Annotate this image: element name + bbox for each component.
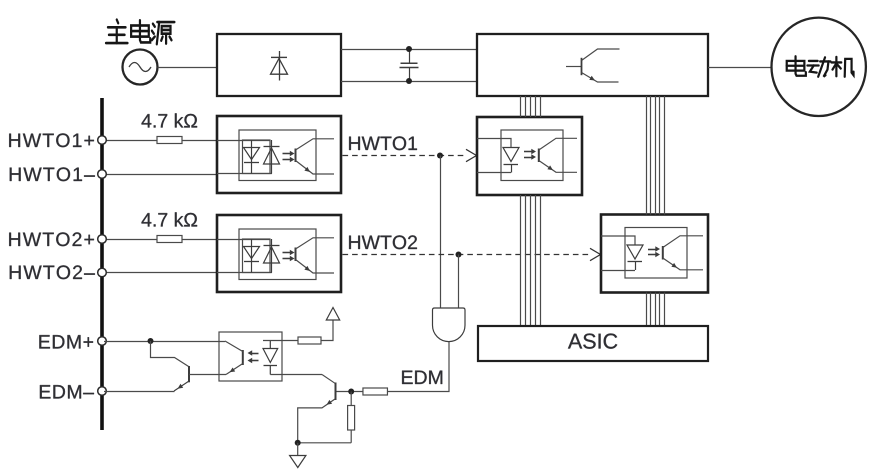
transistor Q1 base bar bbox=[188, 366, 190, 382]
LED diode up U2 (HWTO2 input) bbox=[271, 239, 273, 273]
arrowhead into U4 bbox=[590, 248, 601, 260]
wire DC- rectifier to inverter bbox=[341, 81, 477, 83]
LED diode up U1 (HWTO1 input) bbox=[271, 140, 273, 174]
light emission arrow bbox=[648, 249, 657, 251]
wire Q1 base to U5 emitter bbox=[189, 374, 226, 376]
optocoupler U2 (HWTO2 input) inner package bbox=[239, 229, 316, 280]
label ASIC bbox=[568, 333, 617, 348]
wire R2 to opto bbox=[182, 239, 217, 241]
wire U4 (HWTO2 gate drive) cathode input bbox=[601, 270, 635, 272]
wire EDM- bbox=[104, 391, 175, 393]
capacitor C1 bbox=[409, 49, 411, 63]
rectifier diode symbol bbox=[279, 51, 281, 81]
light emission arrow bbox=[251, 353, 259, 355]
LED cell box U1 (HWTO1 input) bbox=[243, 140, 271, 174]
LED diode down U1 (HWTO1 input) bbox=[251, 140, 253, 174]
wire bus U4 to ASIC bbox=[646, 293, 648, 327]
light emission arrow bbox=[283, 159, 292, 161]
transistor Q1 emitter bbox=[174, 381, 189, 391]
phototransistor U2 (HWTO2 input) bbox=[295, 248, 297, 262]
phototransistor U4 (HWTO2 gate drive) bbox=[662, 246, 664, 260]
wire HWTO1 to AND gate bbox=[440, 156, 442, 309]
label 4.7 kOhm R2 bbox=[142, 212, 198, 226]
phototransistor emitter arrow U4 (HWTO2 gate drive) bbox=[671, 263, 677, 268]
LED diode down U4 (HWTO2 gate drive) bbox=[627, 245, 643, 259]
phototransistor U1 (HWTO1 input) bbox=[295, 149, 297, 163]
AC source circle bbox=[123, 50, 158, 85]
terminal HWTO2+ bbox=[98, 235, 107, 244]
wire U5 cathode out bbox=[270, 374, 322, 376]
wire AC to rectifier bbox=[158, 67, 218, 69]
node DC- cap junction bbox=[406, 78, 412, 84]
light emission arrow bbox=[283, 252, 292, 254]
optocoupler U3 (HWTO1 gate drive) outer box bbox=[477, 117, 582, 195]
wire R1 to opto bbox=[182, 140, 217, 142]
terminal EDM- bbox=[98, 387, 107, 396]
transistor Q2 base bar bbox=[335, 383, 337, 401]
LED diode down U3 (HWTO1 gate drive) bbox=[503, 148, 519, 162]
label HWTO1 bbox=[349, 136, 417, 150]
input bus bar bbox=[100, 98, 104, 430]
node HWTO2 branch bbox=[456, 252, 462, 258]
optocoupler U2 (HWTO2 input) outer box bbox=[217, 215, 341, 292]
resistor R1 4.7k bbox=[157, 137, 182, 144]
power supply arrow bbox=[326, 308, 339, 321]
wire bus inverter to U4 bbox=[646, 96, 648, 215]
wire DC+ rectifier to inverter bbox=[341, 49, 477, 51]
terminal EDM+ bbox=[98, 337, 107, 346]
wire U2 (HWTO2 input) anode input bbox=[217, 239, 270, 241]
ASIC block bbox=[478, 326, 708, 361]
wire inverter to motor bbox=[708, 67, 772, 69]
label HWTO2 bbox=[349, 235, 417, 249]
ground symbol bbox=[297, 443, 299, 456]
wire EDM+ bbox=[104, 341, 225, 343]
node DC+ cap junction bbox=[406, 46, 412, 52]
wire R3 to Vcc arrow bbox=[321, 320, 333, 341]
wire U2 (HWTO2 input) cathode input bbox=[217, 272, 272, 274]
wire ground rail bbox=[298, 442, 352, 444]
wire U1 (HWTO1 input) cathode input bbox=[217, 173, 272, 175]
optocoupler U3 (HWTO1 gate drive) inner package bbox=[501, 130, 563, 181]
LED cell box U2 (HWTO2 input) bbox=[243, 239, 271, 273]
inverter power block bbox=[477, 34, 708, 96]
label EDM bbox=[402, 371, 442, 384]
rectifier block bbox=[217, 34, 341, 96]
wire R5 bottom bbox=[350, 430, 352, 443]
terminal HWTO1+ bbox=[98, 136, 107, 145]
wire Q2 base bbox=[337, 391, 364, 393]
wire U5 anode out bbox=[263, 340, 298, 342]
phototransistor emitter arrow U3 (HWTO1 gate drive) bbox=[547, 165, 553, 170]
wire R5 top bbox=[350, 392, 352, 406]
wire U4 (HWTO2 gate drive) anode input bbox=[601, 236, 635, 245]
optocoupler U5 (EDM) box bbox=[219, 332, 282, 381]
wire HWTO2+ bbox=[104, 239, 157, 241]
terminal HWTO2- bbox=[98, 268, 107, 277]
phototransistor emitter arrow U2 (HWTO2 input) bbox=[304, 266, 310, 271]
wire bus inverter to U3 bbox=[520, 96, 522, 117]
resistor R3 pull-up bbox=[298, 337, 321, 344]
node Q2 base node bbox=[348, 389, 354, 395]
optocoupler U1 (HWTO1 input) inner package bbox=[239, 130, 316, 181]
inverter IGBT symbol bbox=[566, 66, 582, 68]
wire AND output to EDM line bbox=[388, 342, 450, 392]
label 主电源 (main power) hand-drawn glyphs bbox=[106, 20, 174, 45]
light emission arrow bbox=[283, 258, 292, 260]
label 4.7 kOhm R1 bbox=[142, 113, 198, 127]
resistor R4 (EDM series) bbox=[363, 388, 388, 395]
light emission arrow bbox=[283, 153, 292, 155]
wire HWTO1- bbox=[104, 174, 217, 176]
node HWTO1 branch bbox=[437, 153, 443, 159]
optocoupler U4 (HWTO2 gate drive) inner package bbox=[625, 228, 687, 279]
wire HWTO1+ bbox=[104, 140, 157, 142]
LED diode down U2 (HWTO2 input) bbox=[251, 239, 253, 273]
wire U1 (HWTO1 input) anode input bbox=[217, 140, 270, 142]
wire bus U3 to ASIC bbox=[520, 195, 522, 326]
AND gate bbox=[433, 308, 466, 342]
resistor R5 (pull-down) bbox=[348, 406, 355, 431]
optocoupler U4 (HWTO2 gate drive) outer box bbox=[601, 215, 708, 293]
wire U3 (HWTO1 gate drive) anode input bbox=[477, 139, 511, 148]
wire EDM+ branch down bbox=[151, 341, 190, 367]
wire HWTO2 dashed bbox=[343, 254, 590, 256]
transistor Q2 emitter bbox=[298, 399, 335, 443]
light emission arrow bbox=[524, 151, 533, 153]
wire HWTO2- bbox=[104, 272, 217, 274]
phototransistor emitter arrow U1 (HWTO1 input) bbox=[304, 167, 310, 172]
label 电动机 (motor) hand-drawn glyphs bbox=[787, 56, 854, 76]
IGBT emitter arrow bbox=[589, 76, 595, 81]
wire U3 (HWTO1 gate drive) cathode input bbox=[477, 172, 511, 174]
optocoupler U1 (HWTO1 input) outer box bbox=[217, 116, 341, 193]
U5 LED diode down bbox=[269, 341, 271, 349]
motor circle bbox=[772, 18, 866, 116]
phototransistor U3 (HWTO1 gate drive) bbox=[538, 149, 540, 163]
transistor Q2 collector diag bbox=[322, 375, 335, 384]
light emission arrow bbox=[648, 254, 657, 256]
arrowhead into U3 bbox=[466, 149, 477, 161]
resistor R2 4.7k bbox=[157, 236, 182, 243]
wire HWTO2 to AND gate bbox=[458, 255, 460, 309]
node EDM+ branch bbox=[148, 338, 154, 344]
terminal HWTO1- bbox=[98, 170, 107, 179]
U5 phototransistor bbox=[242, 350, 244, 365]
U5 phototransistor emitter arrow bbox=[230, 368, 236, 373]
wire HWTO1 dashed bbox=[343, 155, 466, 157]
light emission arrow bbox=[524, 157, 533, 159]
node ground node bbox=[295, 440, 301, 446]
light emission arrow bbox=[251, 360, 259, 362]
AC sine wave bbox=[129, 63, 151, 72]
